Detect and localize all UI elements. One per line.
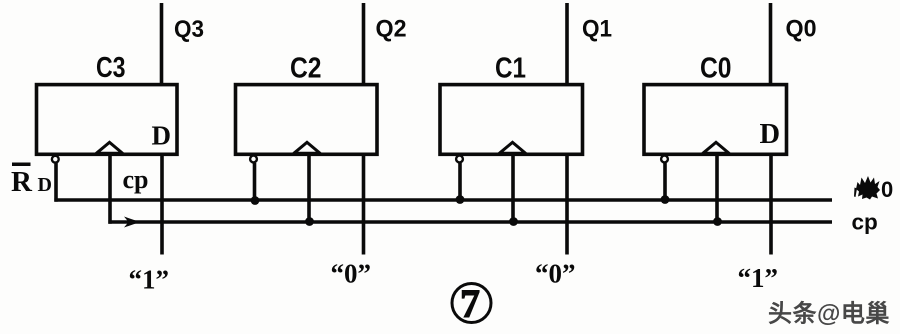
- svg-text:Q0: Q0: [786, 16, 817, 43]
- svg-text:“0”: “0”: [331, 259, 372, 289]
- svg-text:C1: C1: [495, 53, 526, 85]
- svg-text:C2: C2: [290, 53, 322, 85]
- svg-text:0: 0: [881, 177, 893, 202]
- svg-text:D: D: [38, 174, 52, 196]
- svg-text:Q3: Q3: [174, 16, 204, 43]
- svg-text:R: R: [11, 166, 33, 198]
- svg-text:D: D: [760, 119, 781, 150]
- svg-text:cp: cp: [852, 210, 878, 235]
- svg-text:C0: C0: [700, 53, 732, 85]
- svg-text:cp: cp: [123, 165, 149, 194]
- svg-text:7: 7: [460, 281, 480, 326]
- svg-text:Q2: Q2: [376, 16, 407, 43]
- svg-text:D: D: [152, 121, 172, 151]
- svg-text:头条@电巢: 头条@电巢: [768, 300, 890, 328]
- svg-text:“1”: “1”: [129, 265, 170, 295]
- svg-text:Q1: Q1: [582, 16, 612, 43]
- svg-text:“0”: “0”: [535, 259, 576, 289]
- svg-text:C3: C3: [96, 52, 126, 84]
- svg-text:“1”: “1”: [738, 263, 779, 293]
